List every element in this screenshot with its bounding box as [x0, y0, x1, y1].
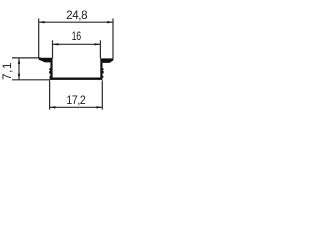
- dimension line 17,2: [50, 106, 103, 108]
- profile right wall bumps: [103, 68, 104, 78]
- svg-text:17,2: 17,2: [66, 94, 85, 107]
- background: [0, 0, 128, 128]
- profile bottom bar: [50, 78, 103, 80]
- profile right wall: [100, 63, 102, 78]
- profile left wall: [49, 62, 52, 77]
- extension line left of dim 17,2: [49, 80, 51, 109]
- extension line right of dim 16: [99, 40, 101, 58]
- dimension line 24,8: [39, 21, 113, 23]
- extension line right of dim 24,8: [112, 19, 114, 59]
- svg-text:16: 16: [72, 31, 82, 43]
- dimension line 7,1: [18, 58, 20, 80]
- arrow down 7,1: [18, 74, 20, 80]
- arrow left 24,8: [39, 21, 45, 23]
- arrow right 16: [95, 43, 101, 45]
- profile left flange (section fill): [39, 58, 53, 63]
- svg-text:24,8: 24,8: [66, 9, 87, 22]
- dimension line 16: [53, 43, 101, 45]
- arrow right 17,2: [96, 106, 102, 108]
- extension line bottom of dim 7,1: [12, 79, 50, 81]
- arrow right 24,8: [107, 21, 113, 23]
- extension line left of dim 24,8: [38, 19, 40, 58]
- arrow left 17,2: [50, 106, 56, 108]
- arrow up 7,1: [18, 58, 20, 64]
- arrow left 16: [53, 43, 59, 45]
- extension line left of dim 16: [52, 40, 54, 58]
- svg-text:7,1: 7,1: [1, 62, 14, 80]
- extension line top of dim 7,1: [12, 57, 41, 59]
- profile left wall bumps: [49, 68, 50, 78]
- extension line right of dim 17,2: [101, 80, 103, 109]
- profile right flange (section fill): [100, 58, 113, 63]
